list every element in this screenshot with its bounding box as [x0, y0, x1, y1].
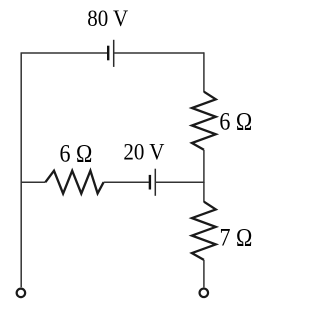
resistor R2 6 ohm (middle horizontal zigzag) — [45, 171, 103, 194]
battery V2 20 V positive plate (long thin) — [154, 169, 156, 196]
svg-text:6 Ω: 6 Ω — [60, 140, 93, 168]
battery V1 80 V negative plate (short thick) — [107, 46, 109, 61]
wire: right vertical from R3 to output terminal — [203, 260, 205, 288]
terminal: open circle bottom right — [200, 289, 209, 298]
svg-text:6 Ω: 6 Ω — [219, 108, 252, 136]
svg-text:20 V: 20 V — [123, 139, 164, 165]
wire: middle horizontal from V2 to node A — [155, 181, 204, 183]
battery V1 80 V positive plate (long thin) — [113, 40, 115, 67]
wire: top left segment to battery — [21, 52, 108, 54]
svg-text:80 V: 80 V — [87, 5, 128, 31]
resistor R1 6 ohm (right vertical zigzag) — [192, 92, 216, 150]
wire: right vertical between R1 and node A — [203, 150, 205, 183]
wire: left vertical branch — [20, 53, 22, 287]
wire: middle horizontal from left branch to resistor R2 — [21, 181, 45, 183]
wire: middle horizontal from R2 to battery V2 — [104, 181, 149, 183]
svg-text:7 Ω: 7 Ω — [220, 224, 253, 252]
terminal: open circle bottom left — [17, 289, 26, 298]
battery V2 20 V negative plate (short thick) — [149, 175, 151, 190]
wire: right vertical down to resistor R1 — [203, 52, 205, 92]
wire: right vertical between node A and resistor R3 — [203, 182, 205, 202]
resistor R3 7 ohm (lower right vertical zigzag) — [192, 202, 216, 260]
wire: top right segment from battery to corner — [114, 52, 204, 54]
